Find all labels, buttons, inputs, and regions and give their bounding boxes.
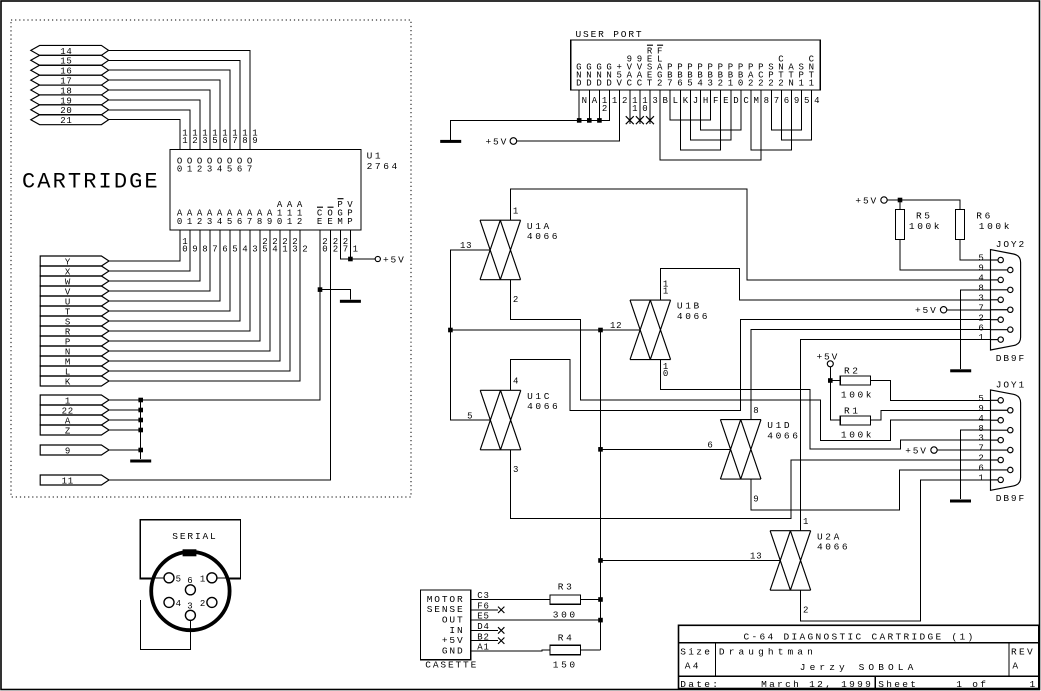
wire cartridge ground bus vertical	[140, 400, 142, 459]
svg-text:2: 2	[197, 217, 203, 227]
cartridge pin W terminal	[40, 276, 109, 286]
wire cartridge pin 15 to U1 O6	[109, 60, 240, 149]
wire U1 A11 to cartridge pin L	[109, 230, 290, 371]
svg-text:4: 4	[814, 96, 820, 106]
JOY2 pin 8	[1008, 287, 1013, 292]
junction	[587, 118, 592, 123]
wire cartridge pin 14 to U1 O7	[109, 50, 250, 149]
svg-text:Sheet: Sheet	[878, 679, 918, 690]
svg-text:+5V: +5V	[817, 351, 840, 362]
JOY2 pin 9	[1008, 267, 1013, 272]
wire R5 to JOY2 pin 9	[900, 239, 991, 270]
svg-text:1: 1	[182, 136, 188, 146]
svg-text:5: 5	[804, 96, 810, 106]
svg-text:4: 4	[978, 414, 984, 424]
wire U1 A9 to cartridge pin N	[109, 230, 270, 351]
cartridge pin X terminal	[40, 266, 109, 276]
ground CE branch	[340, 300, 361, 303]
svg-text:0: 0	[642, 104, 648, 114]
wire CE ground branch	[320, 290, 350, 300]
wire U1A pin 2 to JOY1 pin 4	[510, 280, 990, 441]
wire R6 to JOY2 pin 5	[960, 239, 990, 260]
SERIAL pin 1	[207, 573, 217, 583]
wire USER PORT loopback L to F	[670, 90, 710, 120]
+5V terminal JOY1 pin7	[931, 447, 937, 453]
svg-text:2: 2	[192, 136, 198, 146]
svg-text:+5V: +5V	[905, 445, 928, 456]
svg-text:8: 8	[978, 424, 984, 434]
svg-text:2: 2	[803, 606, 809, 616]
svg-text:M: M	[753, 96, 759, 106]
SERIAL pin 5	[164, 573, 174, 583]
svg-text:7: 7	[212, 245, 218, 255]
svg-text:4: 4	[242, 245, 248, 255]
svg-text:9: 9	[192, 245, 198, 255]
JOY1 pin 2	[998, 457, 1003, 462]
wire cartridge pin 16 to U1 O5	[109, 70, 230, 149]
wire +5V to R1	[830, 367, 840, 420]
svg-text:Draughtman: Draughtman	[719, 646, 817, 657]
svg-text:S: S	[799, 63, 805, 73]
analog switch U1C (4066)	[480, 390, 521, 450]
wire SERIAL pin 5 to box edge	[140, 577, 164, 579]
wire R2 to JOY1 pin 5	[871, 381, 991, 401]
svg-text:G: G	[576, 63, 582, 73]
JOY2 pin 5	[998, 257, 1003, 262]
svg-text:6: 6	[237, 164, 243, 174]
wire U1 PGM to +5V	[341, 230, 351, 259]
svg-text:REV: REV	[1011, 646, 1035, 657]
svg-text:2: 2	[302, 245, 308, 255]
svg-text:0: 0	[277, 217, 283, 227]
wire CASETTE MOTOR to R3	[471, 599, 550, 601]
wire control bus vertical	[600, 330, 602, 650]
svg-text:F: F	[713, 96, 719, 106]
svg-text:5: 5	[227, 164, 233, 174]
svg-text:P: P	[738, 63, 744, 73]
wire JOY1 pin 8 to ground	[961, 430, 991, 499]
wire control net to U2A-13	[601, 559, 781, 561]
wire U1 A5 to cartridge pin T	[109, 230, 230, 311]
connector JOY1 DB9F shell	[991, 390, 1021, 490]
cartridge connector dashed outline box	[11, 20, 411, 497]
wire USER PORT pin 2 to +5V	[517, 90, 620, 141]
cartridge pin N terminal	[40, 346, 109, 356]
svg-text:7: 7	[247, 217, 253, 227]
+5V terminal VPP	[375, 256, 380, 261]
JOY1 pin 7	[1008, 447, 1013, 452]
cartridge pin Y terminal	[40, 256, 109, 266]
wire cartridge pin 20 to U1 O1	[109, 110, 190, 150]
wire USER PORT pin 10 stub	[639, 90, 641, 124]
wire CASETTE SENSE stub	[471, 609, 498, 611]
svg-text:3: 3	[252, 245, 258, 255]
svg-text:D: D	[733, 96, 739, 106]
junction	[597, 118, 602, 123]
svg-text:3: 3	[978, 434, 984, 444]
svg-text:8: 8	[978, 283, 984, 293]
resistor R4 150	[550, 645, 581, 654]
svg-text:1: 1	[978, 474, 984, 484]
svg-text:0: 0	[663, 369, 669, 379]
svg-text:3: 3	[513, 465, 519, 475]
svg-text:A4: A4	[685, 660, 701, 671]
svg-text:1: 1	[978, 333, 984, 343]
wire USER PORT pin 11 stub	[629, 90, 631, 124]
JOY2 pin 4	[998, 277, 1003, 282]
cartridge pin T terminal	[40, 306, 109, 316]
junction	[138, 398, 143, 403]
svg-text:SERIAL: SERIAL	[172, 531, 217, 542]
svg-text:1: 1	[187, 164, 193, 174]
connector CASETTE body	[421, 590, 471, 660]
svg-text:P: P	[667, 63, 673, 73]
svg-text:1: 1	[632, 104, 638, 114]
wire U1 A0 to cartridge pin Y	[109, 230, 180, 261]
svg-text:4066: 4066	[527, 401, 560, 412]
svg-text:5: 5	[212, 136, 218, 146]
svg-text:5: 5	[978, 254, 984, 264]
title block	[679, 625, 1039, 688]
junction	[318, 287, 323, 292]
SERIAL pin 4	[164, 597, 174, 607]
svg-text:9: 9	[252, 136, 258, 146]
wire U1B pin 10 to JOY1 pin 3	[660, 360, 990, 449]
wire U1 A12 to cartridge pin K	[109, 230, 300, 381]
wire R4 right lead	[580, 649, 600, 651]
svg-text:8: 8	[257, 217, 263, 227]
svg-text:1: 1	[663, 287, 669, 297]
svg-text:R: R	[647, 47, 653, 57]
wire cartridge pin 22 to ground bus	[109, 409, 141, 411]
svg-text:C: C	[778, 55, 784, 65]
svg-text:2: 2	[333, 245, 339, 255]
ground JOY1	[950, 500, 971, 503]
cartridge pin 11 terminal	[40, 475, 109, 485]
svg-text:C: C	[809, 55, 815, 65]
svg-text:9: 9	[978, 264, 984, 274]
wire cartridge pin 17 to U1 O4	[109, 80, 220, 149]
svg-text:2: 2	[978, 454, 984, 464]
svg-text:R4: R4	[558, 633, 575, 644]
svg-text:1: 1	[282, 245, 288, 255]
svg-text:1: 1	[200, 574, 206, 584]
wire control net to U1B-12	[450, 329, 640, 331]
cartridge pin S terminal	[40, 316, 109, 326]
cartridge pin V terminal	[40, 286, 109, 296]
no-connect X	[498, 627, 504, 633]
svg-text:4: 4	[978, 274, 984, 284]
cartridge pin A terminal	[40, 415, 109, 425]
svg-text:7: 7	[774, 96, 780, 106]
svg-text:Z: Z	[65, 426, 71, 436]
JOY1 pin 8	[1008, 427, 1013, 432]
cartridge pin Z terminal	[40, 425, 109, 435]
SERIAL pin 6	[185, 585, 195, 595]
analog switch U1A (4066)	[480, 220, 521, 280]
svg-text:9: 9	[794, 96, 800, 106]
svg-text:1 of: 1 of	[956, 679, 988, 690]
wire cartridge pin 1 to U1 CE	[109, 230, 320, 400]
svg-text:3: 3	[202, 136, 208, 146]
connector USER PORT body	[571, 40, 821, 90]
wire USER PORT loopback M to 9	[751, 90, 791, 150]
svg-text:1: 1	[513, 206, 519, 216]
svg-text:4: 4	[272, 245, 278, 255]
svg-text:JOY2: JOY2	[996, 239, 1026, 250]
svg-text:6: 6	[978, 464, 984, 474]
svg-text:CASETTE: CASETTE	[425, 660, 478, 671]
wire U1 VPP to +5V	[350, 230, 375, 259]
junction	[598, 328, 603, 333]
+5V terminal JOY2 pin7	[940, 307, 946, 313]
no-connect X	[498, 607, 504, 613]
svg-text:E: E	[317, 217, 323, 227]
svg-text:P: P	[718, 63, 724, 73]
+5V terminal R5 R6 feed	[881, 197, 887, 203]
IC U1 2764 EPROM body	[170, 150, 361, 231]
svg-text:4: 4	[176, 599, 182, 609]
svg-text:Size: Size	[680, 646, 712, 657]
wire R1 to JOY1 pin 9	[871, 410, 991, 420]
junction	[138, 408, 143, 413]
JOY1 pin 9	[1008, 408, 1013, 413]
junction	[598, 597, 603, 602]
wire CASETTE OUT to control bus	[471, 619, 601, 621]
wire U1B pin 11 to JOY2 pin 3	[660, 269, 990, 301]
wire CASETTE GND to R4	[471, 649, 550, 652]
svg-text:DB9F: DB9F	[996, 493, 1026, 504]
svg-text:P: P	[708, 63, 714, 73]
svg-text:8: 8	[764, 96, 770, 106]
svg-text:5: 5	[176, 574, 182, 584]
resistor R2 100k	[840, 376, 870, 385]
wire +5V to JOY1 pin 7	[937, 449, 990, 451]
svg-text:5: 5	[262, 245, 268, 255]
svg-text:G: G	[596, 63, 602, 73]
svg-text:3: 3	[978, 293, 984, 303]
svg-text:2: 2	[622, 96, 628, 106]
svg-text:1: 1	[187, 217, 193, 227]
junction	[138, 428, 143, 433]
svg-text:P: P	[677, 63, 683, 73]
svg-text:March 12, 1999: March 12, 1999	[761, 679, 873, 690]
wire cartridge pin Z to ground bus	[109, 429, 141, 431]
wire USER PORT loopback J to D	[690, 90, 730, 140]
svg-text:+5V: +5V	[915, 305, 938, 316]
JOY1 pin 6	[1008, 467, 1013, 472]
wire JOY2 pin 6 to U1D pin 8	[751, 330, 991, 420]
svg-text:F: F	[657, 47, 663, 57]
wire U1 A6 to cartridge pin S	[109, 230, 240, 321]
cartridge pin 20 terminal	[31, 105, 109, 115]
JOY2 pin 3	[998, 297, 1003, 302]
wire CASETTE IN stub	[471, 629, 498, 631]
resistor R5 100k	[896, 210, 905, 240]
svg-text:150: 150	[553, 660, 578, 671]
svg-text:4066: 4066	[527, 231, 560, 242]
+5V terminal user port	[510, 138, 517, 145]
cartridge pin L terminal	[40, 366, 109, 376]
svg-text:L: L	[673, 96, 679, 106]
svg-text:K: K	[683, 96, 689, 106]
JOY2 pin 7	[1008, 307, 1013, 312]
wire cartridge pin 19 to U1 O2	[109, 100, 200, 150]
svg-text:9: 9	[627, 55, 633, 65]
svg-text:4: 4	[217, 164, 223, 174]
cartridge pin 21 terminal	[31, 115, 109, 125]
cartridge pin 1 terminal	[40, 395, 109, 405]
connector JOY2 DB9F shell	[991, 250, 1021, 350]
svg-text:G: G	[586, 63, 592, 73]
svg-text:P: P	[758, 63, 764, 73]
junction	[898, 198, 903, 203]
svg-text:100k: 100k	[979, 221, 1012, 232]
wire U1 A10 to cartridge pin M	[109, 230, 280, 361]
svg-text:2764: 2764	[367, 161, 400, 172]
junction	[598, 558, 603, 563]
svg-text:11: 11	[62, 476, 74, 486]
wire U1C pin 3 to JOY1 pin 2	[511, 450, 991, 519]
svg-text:2: 2	[197, 164, 203, 174]
svg-text:7: 7	[343, 245, 349, 255]
svg-text:3: 3	[207, 164, 213, 174]
wire +5V to R5 and R6	[887, 200, 960, 210]
wire USER PORT loopback K to E	[680, 90, 720, 150]
svg-text:0: 0	[177, 217, 183, 227]
svg-text:1: 1	[353, 245, 359, 255]
svg-text:9: 9	[267, 217, 273, 227]
JOY2 pin 1	[998, 337, 1003, 342]
no-connect X	[498, 638, 504, 644]
wire USER PORT pin 12 to ground bus	[598, 90, 600, 120]
wire cartridge pin 9 to ground bus	[109, 449, 141, 451]
svg-text:100k: 100k	[841, 389, 874, 400]
svg-text:H: H	[703, 96, 709, 106]
svg-text:9: 9	[753, 495, 759, 505]
svg-text:8: 8	[242, 136, 248, 146]
svg-text:E: E	[723, 96, 729, 106]
wire U1 A8 to cartridge pin P	[109, 230, 260, 341]
JOY1 pin 4	[998, 418, 1003, 423]
svg-text:7: 7	[978, 303, 984, 313]
wire cartridge pin 21 to U1 O0	[109, 120, 180, 150]
svg-text:5: 5	[978, 394, 984, 404]
wire R5 top lead	[899, 200, 901, 210]
svg-text:CARTRIDGE: CARTRIDGE	[22, 170, 160, 195]
wire U1 A7 to cartridge pin R	[109, 230, 250, 331]
cartridge pin P terminal	[40, 336, 109, 346]
wire U1 A3 to cartridge pin V	[109, 230, 210, 291]
JOY1 pin 3	[998, 437, 1003, 442]
wire U1 A2 to cartridge pin W	[109, 230, 200, 281]
svg-text:3: 3	[652, 96, 658, 106]
svg-text:Date:: Date:	[680, 679, 720, 690]
junction	[448, 328, 453, 333]
svg-text:9: 9	[978, 404, 984, 414]
svg-text:P: P	[697, 63, 703, 73]
wire CASETTE +5V stub	[471, 640, 498, 642]
svg-text:G: G	[606, 63, 612, 73]
SERIAL pin 2	[207, 597, 217, 607]
svg-text:R2: R2	[844, 366, 861, 377]
wire USER PORT pin A to ground bus	[588, 90, 590, 120]
ground cartridge bus	[130, 460, 151, 463]
svg-text:0: 0	[177, 164, 183, 174]
svg-text:4066: 4066	[817, 542, 850, 553]
svg-text:R1: R1	[844, 406, 861, 417]
cartridge pin 17 terminal	[31, 75, 109, 85]
cartridge pin 15 terminal	[31, 55, 109, 65]
svg-text:6: 6	[222, 136, 228, 146]
svg-text:2: 2	[297, 217, 303, 227]
wire JOY2 pin 1 to U2A pin 1	[801, 340, 991, 531]
svg-text:3: 3	[207, 217, 213, 227]
wire USER PORT loopback 6 to 4	[781, 90, 811, 140]
svg-text:8: 8	[753, 406, 759, 416]
svg-text:C-64 DIAGNOSTIC CARTRIDGE (1): C-64 DIAGNOSTIC CARTRIDGE (1)	[744, 631, 976, 642]
svg-text:A: A	[788, 63, 794, 73]
svg-text:+5V: +5V	[383, 254, 406, 265]
wire USER PORT pin 1 to ground bus	[600, 90, 609, 120]
svg-text:100k: 100k	[909, 221, 942, 232]
svg-text:P: P	[687, 63, 693, 73]
svg-text:1: 1	[287, 217, 293, 227]
wire USER PORT loopback H to C	[701, 90, 741, 130]
wire USER PORT pin 3 stub	[649, 90, 651, 124]
svg-text:6: 6	[222, 245, 228, 255]
svg-text:M: M	[337, 217, 343, 227]
svg-text:A: A	[1012, 660, 1020, 671]
svg-text:7: 7	[247, 164, 253, 174]
cartridge pin K terminal	[40, 376, 109, 386]
svg-text:6: 6	[237, 217, 243, 227]
svg-text:2: 2	[513, 295, 519, 305]
wire USER PORT pin N to ground bus	[578, 90, 580, 120]
svg-text:0: 0	[322, 245, 328, 255]
resistor R6 100k	[956, 210, 965, 240]
ground JOY2	[950, 369, 971, 372]
wire cartridge pin 18 to U1 O3	[109, 90, 210, 150]
svg-text:A: A	[592, 96, 598, 106]
resistor R3 300	[550, 595, 581, 604]
svg-text:6: 6	[978, 323, 984, 333]
svg-text:6: 6	[784, 96, 790, 106]
svg-text:1: 1	[612, 96, 618, 106]
svg-text:1: 1	[803, 517, 809, 527]
junction	[577, 118, 582, 123]
svg-text:21: 21	[60, 116, 72, 126]
svg-text:9: 9	[637, 55, 643, 65]
SERIAL DIN outline	[151, 552, 229, 630]
svg-text:5: 5	[227, 217, 233, 227]
svg-text:0: 0	[182, 245, 188, 255]
cartridge pin R terminal	[40, 326, 109, 336]
SERIAL DIN key notch	[183, 549, 197, 556]
JOY2 pin 2	[998, 317, 1003, 322]
wire +5V to JOY2 pin 7	[947, 309, 991, 311]
junction	[828, 378, 833, 383]
svg-text:J: J	[693, 96, 699, 106]
wire USER PORT ground bus	[451, 120, 600, 140]
SERIAL pin 3	[185, 610, 195, 620]
JOY1 pin 5	[998, 398, 1003, 403]
svg-text:4: 4	[217, 217, 223, 227]
junction	[138, 448, 143, 453]
cartridge pin 18 terminal	[31, 85, 109, 95]
cartridge pin M terminal	[40, 356, 109, 366]
svg-text:JOY1: JOY1	[996, 379, 1026, 390]
